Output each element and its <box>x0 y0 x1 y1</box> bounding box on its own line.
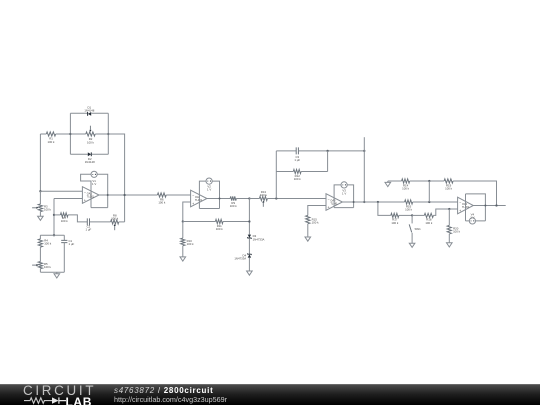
potentiometer R2 <box>70 126 108 145</box>
wire OA3 supply loop <box>334 185 354 208</box>
resistor R6 <box>157 193 190 205</box>
svg-text:+: + <box>459 209 461 213</box>
resistor R12 <box>276 151 327 181</box>
diode D2 (1N4148) <box>70 152 108 164</box>
wire zener to ground <box>248 258 250 271</box>
svg-text:1 V: 1 V <box>470 215 474 219</box>
node switch junction <box>411 214 413 216</box>
svg-text:100 k: 100 k <box>44 208 52 212</box>
wire zener branch <box>248 199 250 235</box>
svg-text:100 k: 100 k <box>453 230 461 234</box>
resistor R17 <box>391 213 412 225</box>
ground below SW1 <box>409 243 415 247</box>
wire stage-2 node to R13 <box>249 198 259 200</box>
svg-text:100 k: 100 k <box>44 265 52 269</box>
svg-text:100 k: 100 k <box>405 208 413 212</box>
op-amp OA2 (TL081) <box>191 190 207 207</box>
resistor R20 <box>447 209 460 243</box>
svg-text:100 k: 100 k <box>391 221 399 225</box>
capacitor C3 <box>276 147 365 162</box>
footer line 2 <box>114 395 227 404</box>
CircuitLab logo text CIRCUIT <box>23 383 96 398</box>
wire diode-box left edge <box>69 113 71 154</box>
ground below R10 <box>180 257 186 261</box>
svg-text:100 k: 100 k <box>445 187 453 191</box>
ground below zeners <box>247 271 253 275</box>
resistor R14 <box>402 179 445 191</box>
voltage source V4 <box>469 212 475 224</box>
wire OA3 output <box>342 201 404 203</box>
svg-text:100 k: 100 k <box>216 227 224 231</box>
wire OA2 non-inverting branch <box>182 202 191 223</box>
svg-text:−: − <box>459 201 461 205</box>
wire OA4 output <box>473 204 505 206</box>
svg-text:1 µF: 1 µF <box>69 242 75 246</box>
resistor R16 <box>405 200 458 212</box>
svg-text:100 k: 100 k <box>61 219 69 223</box>
wire OA4 supply loop <box>466 194 486 221</box>
node A junction (inverting input net) <box>39 190 41 192</box>
svg-text:100 k: 100 k <box>260 193 268 197</box>
svg-text:1N4148: 1N4148 <box>84 108 94 112</box>
wire OA1 output to R6 <box>99 194 157 196</box>
svg-text:100 k: 100 k <box>44 242 52 246</box>
svg-text:100 k: 100 k <box>158 201 166 205</box>
logo wire-resistor-diode glyph <box>24 396 70 406</box>
svg-text:TL081: TL081 <box>87 196 95 199</box>
wire feedback vertical <box>428 181 430 202</box>
ground feedback top <box>385 181 391 187</box>
potentiometer R3 <box>32 191 51 216</box>
svg-text:1N4733A: 1N4733A <box>234 257 246 261</box>
resistor R9 <box>230 196 250 208</box>
resistor R19 <box>444 179 496 205</box>
ground below R15 <box>305 237 311 241</box>
resistor R15 <box>306 215 319 237</box>
ground below R3 <box>38 216 44 220</box>
capacitor C1 <box>61 235 74 272</box>
resistor R7 <box>54 213 87 223</box>
svg-text:1 µF: 1 µF <box>86 228 92 232</box>
resistor R11 <box>183 219 250 231</box>
wire lower input row <box>378 202 391 215</box>
svg-text:−: − <box>192 194 194 198</box>
wire OA2 supply loop <box>199 181 219 208</box>
svg-text:SW1: SW1 <box>415 227 422 231</box>
svg-text:+: + <box>327 206 329 210</box>
footer line 1 <box>114 386 213 395</box>
CircuitLab logo text LAB <box>66 395 92 409</box>
wire to OA1 non-inverting input <box>54 198 82 200</box>
wire OA1 supply loop <box>81 174 108 207</box>
wire OA3 non-inverting branch <box>308 206 326 216</box>
svg-text:+: + <box>192 202 194 206</box>
wire node B vertical <box>53 199 55 237</box>
svg-text:TL081: TL081 <box>195 199 203 202</box>
zener diode D4 (1N4733A) <box>234 253 251 260</box>
wire RC feedback left edge <box>275 151 277 199</box>
svg-text:100 k: 100 k <box>230 204 238 208</box>
potentiometer R8 <box>111 214 125 231</box>
svg-text:−: − <box>84 191 86 195</box>
node stage-3 input junction <box>275 197 277 199</box>
voltage source V2 <box>206 178 212 191</box>
resistor R1 <box>40 132 70 144</box>
op-amp OA3 (TL081) <box>326 194 342 211</box>
wire OA2 output <box>207 198 230 200</box>
wire RC network box <box>40 235 64 272</box>
svg-text:100 k: 100 k <box>48 140 56 144</box>
resistor R18 <box>412 208 458 225</box>
svg-text:100 k: 100 k <box>312 221 320 225</box>
svg-text:100 k: 100 k <box>187 242 195 246</box>
svg-text:1N4733A: 1N4733A <box>253 237 265 241</box>
wire feedback top row <box>388 180 402 182</box>
node stage-2 output junction <box>248 197 250 199</box>
diode D1 (1N4148) <box>70 105 108 115</box>
potentiometer R5 <box>32 262 51 273</box>
potentiometer R13 <box>259 190 326 207</box>
svg-text:100 k: 100 k <box>402 187 410 191</box>
wire stub net <box>363 137 365 203</box>
wire diode-box to output feedback <box>108 134 124 222</box>
switch SW1 <box>409 215 421 243</box>
svg-text:−: − <box>327 198 329 202</box>
svg-text:+: + <box>84 199 86 203</box>
wire to OA1 inverting input <box>40 190 82 192</box>
svg-text:100 k: 100 k <box>425 221 433 225</box>
ground below R20 <box>447 243 453 247</box>
resistor R4 <box>38 235 51 261</box>
ground below RC box <box>54 272 60 278</box>
svg-text:1 V: 1 V <box>92 182 96 186</box>
svg-text:1 V: 1 V <box>342 191 346 195</box>
capacitor C2 <box>86 218 111 231</box>
voltage source V3 <box>341 182 347 196</box>
svg-text:100 k: 100 k <box>294 177 302 181</box>
op-amp OA4 (TL081) <box>458 197 474 214</box>
zener diode D3 (1N4733A) <box>247 234 264 241</box>
svg-text:100 k: 100 k <box>111 216 119 220</box>
svg-text:1N4148: 1N4148 <box>85 160 95 164</box>
svg-text:1 µF: 1 µF <box>294 158 300 162</box>
voltage source V1 <box>91 171 97 186</box>
svg-text:1 V: 1 V <box>207 187 211 191</box>
wire from R1 node down to R3 node <box>39 134 41 191</box>
wire between zeners <box>248 239 250 254</box>
wire diode-box right edge <box>107 113 109 154</box>
resistor R10 <box>181 222 194 257</box>
op-amp OA1 (TL081) <box>82 187 99 204</box>
svg-text:100 k: 100 k <box>87 140 95 144</box>
